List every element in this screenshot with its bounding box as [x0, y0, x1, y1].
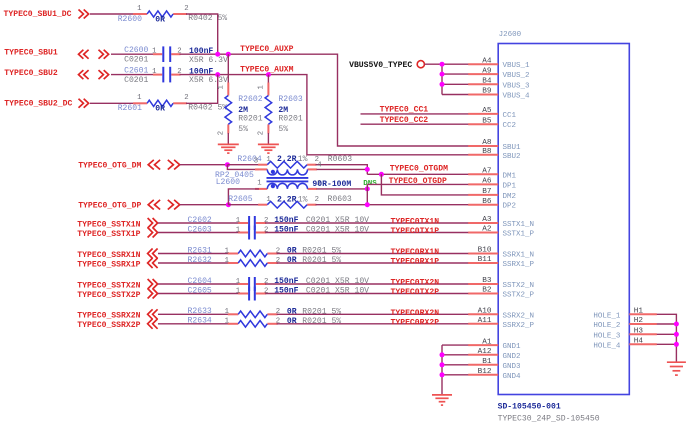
wire GND bus vertical — [441, 345, 443, 395]
svg-text:TYPEC0_SBU2: TYPEC0_SBU2 — [4, 69, 58, 78]
pin B6 DP2 stub — [468, 204, 498, 206]
pin H1 HOLE_1 stub — [629, 313, 657, 315]
svg-text:2: 2 — [258, 131, 266, 135]
svg-text:DM1: DM1 — [503, 172, 517, 180]
svg-text:0R: 0R — [155, 15, 165, 24]
svg-text:TYPEC0_SBU2_DC: TYPEC0_SBU2_DC — [4, 99, 72, 108]
svg-text:DM2: DM2 — [503, 193, 517, 201]
pin A5 CC1 stub — [468, 113, 498, 115]
wire TYPEC0_OTG_DM — [180, 164, 227, 166]
capacitor C2602 150nF — [238, 216, 266, 230]
svg-text:TYPEC0_OTGDM: TYPEC0_OTGDM — [390, 164, 448, 173]
junction DM1 DM2 split — [379, 172, 384, 177]
wire C2604 to connector — [265, 283, 468, 285]
wire choke bottom out — [317, 188, 368, 190]
svg-text:R2631: R2631 — [188, 246, 212, 255]
wire DM to DM2 pin B7 — [381, 174, 468, 195]
wire VBUS to pin A4 — [442, 63, 469, 65]
svg-text:150nF: 150nF — [274, 216, 298, 225]
svg-text:A10: A10 — [478, 308, 492, 316]
wire VBUS to pin A9 — [442, 73, 469, 75]
port chevron TYPEC0_SSTX1P — [148, 228, 158, 238]
junction GND B1 — [440, 362, 445, 367]
wire TYPEC0_SSTX1P to C2603 — [158, 232, 239, 234]
svg-text:R2632: R2632 — [188, 256, 212, 265]
junction VBUS B4 — [440, 82, 445, 87]
svg-text:1: 1 — [225, 308, 230, 316]
svg-text:DP1: DP1 — [503, 182, 517, 190]
wire R2605 out to DP2 pin B6 — [316, 204, 469, 206]
pin B12 GND4 stub — [468, 374, 498, 376]
svg-text:A7: A7 — [482, 168, 492, 176]
svg-text:L2600: L2600 — [216, 178, 240, 187]
svg-text:H2: H2 — [634, 317, 644, 325]
svg-text:C2602: C2602 — [188, 216, 212, 225]
wire R2603 to ground — [267, 133, 269, 144]
pin A2 SSTX1_P stub — [468, 232, 498, 234]
wire net TYPEC0_AUXP — [180, 54, 469, 146]
svg-text:C0201 X5R 10V: C0201 X5R 10V — [306, 216, 369, 225]
svg-text:HOLE_1: HOLE_1 — [593, 312, 621, 320]
svg-text:2: 2 — [184, 94, 188, 102]
junction VBUS A4 — [440, 62, 445, 67]
ground under R2603 — [258, 143, 279, 145]
svg-text:5%: 5% — [238, 125, 248, 134]
pin B10 SSRX1_N stub — [468, 253, 498, 255]
capacitor C2605 150nF — [238, 287, 266, 301]
wire TYPEC0_SBU2 to C2601 — [111, 74, 154, 76]
svg-text:TYPEC0RX2N: TYPEC0RX2N — [391, 309, 440, 318]
pin H3 HOLE_3 stub — [629, 333, 657, 335]
svg-text:A5: A5 — [482, 107, 492, 115]
svg-text:C0201: C0201 — [124, 56, 148, 65]
wire TYPEC0_SBU1_DC to R2600 pin 1 — [90, 13, 134, 15]
port chevron TYPEC0_SSTX2P — [148, 289, 158, 299]
svg-text:GND3: GND3 — [503, 363, 522, 371]
port chevron TYPEC0_SSRX1P — [148, 258, 158, 268]
junction SBU1_DC on AUXP — [215, 52, 220, 57]
wire HOLE_4 H4 — [657, 343, 677, 345]
capacitor C2601 100nF — [153, 67, 181, 83]
svg-text:C2601: C2601 — [124, 67, 148, 76]
svg-text:TYPEC0_SSTX2P: TYPEC0_SSTX2P — [77, 291, 140, 300]
svg-text:R0201: R0201 — [278, 115, 302, 124]
svg-text:R2633: R2633 — [188, 307, 212, 316]
wire R2631 to connector — [277, 253, 469, 255]
wire R2602 to ground — [227, 133, 229, 144]
svg-text:1: 1 — [236, 227, 241, 235]
svg-text:R0603: R0603 — [328, 155, 352, 164]
svg-text:150nF: 150nF — [274, 226, 298, 235]
svg-text:TYPEC0RX1P: TYPEC0RX1P — [391, 258, 440, 267]
wire C2605 to connector — [265, 293, 468, 295]
wire choke top out — [317, 168, 368, 170]
pin A11 SSRX2_P stub — [468, 323, 498, 325]
svg-text:TYPEC0_SSRX2P: TYPEC0_SSRX2P — [77, 321, 140, 330]
wire TYPEC0_SSTX1N to C2602 — [158, 222, 239, 224]
wire TYPEC0_SBU1 to C2600 — [111, 53, 154, 55]
svg-text:B2: B2 — [482, 287, 492, 295]
port chevron TYPEC0_SSRX1N — [148, 249, 158, 259]
svg-text:1: 1 — [266, 156, 271, 164]
svg-text:X5R 6.3V: X5R 6.3V — [189, 56, 228, 65]
wire DM to R2604 — [227, 164, 259, 166]
svg-text:4: 4 — [317, 161, 322, 169]
svg-text:C0201: C0201 — [124, 76, 148, 85]
svg-text:TYPEC0_OTGDP: TYPEC0_OTGDP — [389, 177, 447, 186]
port chevron TYPEC0_SSTX2N — [148, 279, 158, 289]
wire HOLE_2 H2 — [657, 323, 677, 325]
svg-text:R0603: R0603 — [328, 195, 352, 204]
wire VBUS to pin B4 — [442, 83, 469, 85]
resistor R2604 2.2R — [258, 161, 316, 168]
svg-text:CC1: CC1 — [503, 112, 517, 120]
svg-text:R2634: R2634 — [188, 317, 212, 326]
pin B3 SSTX2_N stub — [468, 283, 498, 285]
ground GND bus — [432, 394, 452, 396]
junction SBU2_DC on AUXM — [215, 72, 220, 77]
svg-text:SSTX2_P: SSTX2_P — [503, 292, 535, 300]
svg-text:1: 1 — [218, 85, 226, 90]
svg-text:1: 1 — [137, 94, 142, 102]
svg-text:VBUS_3: VBUS_3 — [503, 82, 531, 90]
svg-text:C0201 X5R 10V: C0201 X5R 10V — [306, 226, 369, 235]
pin H4 HOLE_4 stub — [629, 343, 657, 345]
resistor R2602 2M — [225, 83, 232, 134]
wire R2604 out — [316, 165, 368, 175]
svg-text:GND2: GND2 — [503, 353, 521, 361]
svg-text:2.2R: 2.2R — [277, 155, 297, 164]
wire DP to DP1 pin A6 — [367, 183, 468, 185]
wire HOLE_3 H3 — [657, 333, 677, 335]
svg-text:TYPEC0RX2P: TYPEC0RX2P — [391, 318, 440, 327]
svg-text:R2600: R2600 — [118, 15, 142, 24]
pin A1 GND1 stub — [468, 344, 498, 346]
svg-text:R0402 5%: R0402 5% — [188, 104, 227, 113]
wire TYPEC0_SSRX2P to R2634 — [158, 323, 229, 325]
svg-text:SBU1: SBU1 — [503, 144, 522, 152]
pin A6 DP1 stub — [468, 183, 498, 185]
svg-text:1%: 1% — [298, 195, 308, 204]
svg-text:B1: B1 — [482, 358, 492, 366]
svg-text:B6: B6 — [482, 198, 492, 206]
svg-text:TYPEC0_SSRX1N: TYPEC0_SSRX1N — [77, 251, 140, 260]
junction choke bottom on DP — [365, 186, 370, 191]
svg-text:SSRX1_P: SSRX1_P — [503, 261, 535, 269]
resistor R2600 0R — [133, 11, 187, 17]
svg-text:HOLE_2: HOLE_2 — [593, 322, 620, 330]
wire TYPEC0_CC1 — [361, 113, 469, 115]
wire DM node to DM1 pin A7 — [367, 173, 468, 175]
svg-text:A1: A1 — [482, 338, 492, 346]
svg-text:B5: B5 — [482, 117, 492, 125]
svg-text:SSRX2_P: SSRX2_P — [503, 322, 535, 330]
port chevron in TYPEC0_SBU2 — [79, 70, 89, 79]
svg-text:1: 1 — [225, 247, 230, 255]
wire VBUS to pin bus — [425, 63, 443, 65]
wire HOLE_1 H1 — [657, 314, 677, 362]
svg-text:GND1: GND1 — [503, 343, 522, 351]
svg-text:TYPEC0_SSRX2N: TYPEC0_SSRX2N — [77, 312, 140, 321]
resistor R2631 0R — [228, 250, 278, 257]
junction HOLE H2 — [674, 322, 679, 327]
wire R2601 pin 2 up to AUXM — [186, 75, 218, 104]
svg-text:C2605: C2605 — [188, 287, 212, 296]
svg-text:R2602: R2602 — [238, 95, 262, 104]
port chevron in TYPEC0_OTG_DM — [148, 160, 160, 170]
pin B8 SBU2 stub — [468, 154, 498, 156]
pin B2 SSTX2_P stub — [468, 293, 498, 295]
svg-text:H3: H3 — [634, 328, 644, 336]
wire TYPEC0_CC2 — [361, 123, 469, 125]
svg-text:0R: 0R — [155, 105, 165, 114]
wire TYPEC0_OTG_DP — [180, 204, 228, 206]
pin B4 VBUS_3 stub — [468, 83, 498, 85]
svg-text:2: 2 — [184, 5, 188, 13]
svg-text:2: 2 — [264, 288, 268, 296]
port chevron TYPEC0_SBU1_DC — [79, 10, 89, 19]
wire AUXP down to R2602 — [227, 54, 229, 83]
svg-text:DP2: DP2 — [503, 203, 517, 211]
svg-text:X5R 6.3V: X5R 6.3V — [189, 76, 228, 85]
svg-text:2: 2 — [315, 196, 319, 204]
svg-text:SD-105450-001: SD-105450-001 — [498, 403, 561, 412]
junction R2605 out — [365, 202, 370, 207]
resistor R2632 0R — [228, 260, 278, 267]
svg-text:TYPEC0_SSTX1P: TYPEC0_SSTX1P — [77, 230, 140, 239]
svg-text:1: 1 — [236, 278, 241, 286]
svg-text:C0201 X5R 10V: C0201 X5R 10V — [306, 287, 369, 296]
wire R2600 pin 2 to node AUXP — [186, 14, 218, 54]
svg-text:B10: B10 — [478, 247, 492, 255]
svg-text:H1: H1 — [634, 308, 644, 316]
junction R2602 on AUXP — [226, 52, 231, 57]
svg-text:SSTX1_N: SSTX1_N — [503, 221, 535, 229]
capacitor C2603 150nF — [238, 226, 266, 240]
svg-text:150nF: 150nF — [274, 287, 298, 296]
svg-text:TYPEC0_CC2: TYPEC0_CC2 — [380, 116, 429, 125]
wire R2632 to connector — [277, 262, 469, 264]
svg-text:1: 1 — [137, 5, 142, 13]
svg-text:TYPEC0RX1N: TYPEC0RX1N — [391, 248, 440, 257]
svg-text:B4: B4 — [482, 78, 492, 86]
svg-text:B8: B8 — [482, 148, 492, 156]
svg-text:C0201 X5R 10V: C0201 X5R 10V — [306, 277, 369, 286]
svg-text:TYPEC0_CC1: TYPEC0_CC1 — [380, 105, 429, 114]
svg-text:R2605: R2605 — [228, 195, 252, 204]
svg-text:HOLE_4: HOLE_4 — [593, 342, 621, 350]
svg-text:TYPEC0_OTG_DM: TYPEC0_OTG_DM — [78, 161, 141, 170]
svg-text:90R-100M: 90R-100M — [312, 180, 351, 189]
pin H2 HOLE_2 stub — [629, 323, 657, 325]
pin A8 SBU1 stub — [468, 145, 498, 147]
svg-text:TYPEC0TX2N: TYPEC0TX2N — [391, 279, 440, 288]
svg-text:SSTX2_N: SSTX2_N — [503, 282, 535, 290]
wire GND pin A12 — [442, 354, 469, 356]
pin B9 VBUS_4 stub — [468, 94, 498, 96]
port chevron TYPEC0_SSRX2P — [148, 319, 158, 329]
svg-text:1: 1 — [152, 48, 157, 56]
svg-text:VBUS_2: VBUS_2 — [503, 72, 530, 80]
svg-text:VBUS_1: VBUS_1 — [503, 62, 531, 70]
wire TYPEC0_SBU2_DC to R2601 — [90, 102, 134, 104]
svg-text:R2601: R2601 — [118, 104, 142, 113]
wire DP vertical — [366, 184, 368, 204]
pin B5 CC2 stub — [468, 123, 498, 125]
svg-text:1: 1 — [236, 217, 241, 225]
svg-text:A2: A2 — [482, 226, 492, 234]
pin A10 SSRX2_N stub — [468, 313, 498, 315]
resistor R2634 0R — [228, 321, 278, 328]
wire R2634 to connector — [277, 323, 469, 325]
wire TYPEC0_SSRX1P to R2632 — [158, 262, 229, 264]
ground under R2602 — [218, 143, 239, 145]
junction GND A12 — [440, 352, 445, 357]
junction R2603 on AUXM — [266, 72, 271, 77]
svg-text:3: 3 — [254, 158, 258, 166]
svg-text:1: 1 — [152, 68, 157, 76]
svg-text:GND4: GND4 — [503, 373, 522, 381]
svg-text:2.2R: 2.2R — [277, 195, 297, 204]
port chevron in TYPEC0_OTG_DP — [148, 200, 160, 210]
svg-text:TYPEC0_AUXM: TYPEC0_AUXM — [240, 66, 294, 75]
svg-text:2: 2 — [264, 278, 268, 286]
common mode choke L2600 RP2_0405 — [255, 169, 317, 189]
ground HOLE bus — [667, 361, 686, 363]
svg-text:A11: A11 — [478, 317, 492, 325]
svg-text:VBUS_4: VBUS_4 — [503, 93, 531, 101]
svg-text:TYPEC0_SBU1: TYPEC0_SBU1 — [4, 48, 58, 57]
junction GND B12 — [440, 372, 445, 377]
svg-text:SBU2: SBU2 — [503, 153, 521, 161]
port chevron TYPEC0_SSTX1N — [148, 218, 158, 228]
capacitor C2600 100nF — [153, 46, 181, 62]
svg-text:A3: A3 — [482, 216, 492, 224]
port chevron out TYPEC0_OTG_DM — [168, 160, 180, 170]
wire R2633 to connector — [277, 313, 469, 315]
svg-text:TYPEC30_24P_SD-105450: TYPEC30_24P_SD-105450 — [498, 415, 600, 424]
junction HOLE H3 — [674, 332, 679, 337]
wire VBUS bus vertical — [441, 64, 443, 94]
port chevron TYPEC0_SBU2_DC — [79, 99, 89, 108]
svg-text:H4: H4 — [634, 338, 644, 346]
svg-text:R0402 5%: R0402 5% — [188, 14, 227, 23]
svg-text:TYPEC0_OTG_DP: TYPEC0_OTG_DP — [78, 201, 141, 210]
svg-text:2: 2 — [264, 227, 268, 235]
svg-text:R2603: R2603 — [278, 95, 302, 104]
svg-text:A6: A6 — [482, 178, 492, 186]
svg-text:TYPEC0TX1N: TYPEC0TX1N — [391, 218, 440, 227]
svg-text:2: 2 — [264, 217, 268, 225]
wire C2602 to connector — [265, 222, 468, 224]
svg-text:1: 1 — [258, 85, 266, 90]
svg-text:SSTX1_P: SSTX1_P — [503, 231, 535, 239]
pin A12 GND2 stub — [468, 354, 498, 356]
svg-text:TYPEC0TX2P: TYPEC0TX2P — [391, 288, 440, 297]
svg-text:TYPEC0_SSTX1N: TYPEC0_SSTX1N — [77, 220, 140, 229]
wire DM down to choke top — [227, 165, 259, 170]
svg-text:A8: A8 — [482, 139, 492, 147]
port chevron out TYPEC0_OTG_DP — [168, 200, 180, 210]
svg-text:TYPEC0_SSTX2N: TYPEC0_SSTX2N — [77, 281, 140, 290]
wire TYPEC0_SSTX2N to C2604 — [158, 283, 239, 285]
svg-text:SSRX2_N: SSRX2_N — [503, 312, 535, 320]
pin B7 DM2 stub — [468, 194, 498, 196]
port chevron out TYPEC0_SBU1 — [99, 50, 109, 59]
svg-text:TYPEC0_SSRX1P: TYPEC0_SSRX1P — [77, 260, 140, 269]
port chevron out TYPEC0_SBU2 — [99, 70, 109, 79]
resistor R2605 2.2R — [258, 201, 316, 208]
svg-text:1: 1 — [266, 196, 271, 204]
pin A9 VBUS_2 stub — [468, 73, 498, 75]
svg-text:C2600: C2600 — [124, 46, 148, 55]
svg-text:1: 1 — [225, 257, 230, 265]
junction HOLE H4 — [674, 342, 679, 347]
port chevron in TYPEC0_SBU1 — [79, 50, 89, 59]
junction choke top / R2604 — [365, 167, 370, 172]
resistor R2601 0R — [133, 100, 187, 106]
svg-text:150nF: 150nF — [274, 277, 298, 286]
svg-text:SSRX1_N: SSRX1_N — [503, 252, 535, 260]
pin B11 SSRX1_P stub — [468, 262, 498, 264]
wire GND pin A1 — [442, 344, 469, 346]
svg-text:B11: B11 — [478, 256, 492, 264]
svg-text:B3: B3 — [482, 277, 492, 285]
capacitor C2604 150nF — [238, 277, 266, 291]
svg-text:B12: B12 — [478, 368, 492, 376]
wire DP up to choke bottom — [228, 189, 259, 205]
wire AUXM down to R2603 — [267, 75, 269, 83]
port chevron TYPEC0_SSRX2N — [148, 309, 158, 319]
svg-text:A9: A9 — [482, 67, 492, 75]
wire TYPEC0_SSRX1N to R2631 — [158, 253, 229, 255]
wire GND pin B12 — [442, 374, 469, 376]
svg-text:1: 1 — [257, 180, 262, 188]
svg-text:CC2: CC2 — [503, 122, 517, 130]
junction DM split — [225, 162, 230, 167]
pin B1 GND3 stub — [468, 364, 498, 366]
resistor R2603 2M — [265, 83, 272, 134]
svg-text:TYPEC0TX1P: TYPEC0TX1P — [391, 227, 440, 236]
svg-text:HOLE_3: HOLE_3 — [593, 332, 621, 340]
svg-text:2: 2 — [218, 131, 226, 135]
svg-text:TYPEC0_SBU1_DC: TYPEC0_SBU1_DC — [4, 10, 72, 19]
pin A4 VBUS_1 stub — [468, 63, 498, 65]
wire DP to R2605 — [228, 204, 259, 206]
svg-text:B7: B7 — [482, 188, 492, 196]
wire C2603 to connector — [265, 232, 468, 234]
svg-text:A12: A12 — [478, 348, 492, 356]
wire net TYPEC0_AUXM — [180, 75, 469, 155]
wire TYPEC0_SSRX2N to R2633 — [158, 313, 229, 315]
svg-text:5%: 5% — [278, 125, 288, 134]
svg-text:C2604: C2604 — [188, 277, 212, 286]
svg-text:B9: B9 — [482, 88, 492, 96]
wire TYPEC0_SSTX2P to C2605 — [158, 293, 239, 295]
wire VBUS to pin B9 — [442, 94, 469, 96]
junction DP split — [226, 202, 231, 207]
svg-text:C2603: C2603 — [188, 226, 212, 235]
svg-text:1: 1 — [236, 288, 241, 296]
svg-text:1: 1 — [225, 318, 230, 326]
power symbol circle VBUS5V0_TYPEC — [417, 61, 424, 68]
svg-text:J2600: J2600 — [499, 31, 522, 39]
svg-text:A4: A4 — [482, 57, 492, 65]
wire GND pin B1 — [442, 364, 469, 366]
connector J2600 outline — [498, 44, 629, 395]
junction VBUS A9 — [440, 72, 445, 77]
pin A7 DM1 stub — [468, 173, 498, 175]
